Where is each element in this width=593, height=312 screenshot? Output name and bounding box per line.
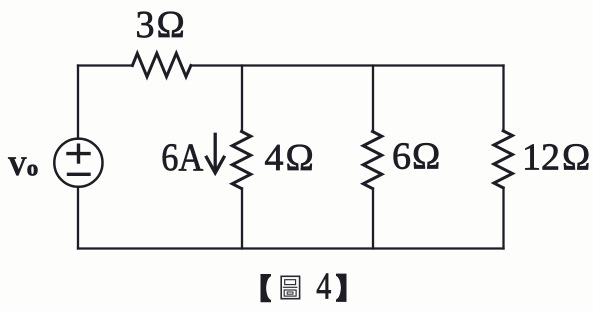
- svg-text:12Ω: 12Ω: [522, 136, 590, 178]
- wire left vertical upper: [77, 66, 79, 139]
- voltage source minus sign: [69, 173, 90, 176]
- svg-text:3Ω: 3Ω: [136, 4, 185, 46]
- resistor R4 12ohm zigzag: [494, 131, 513, 188]
- svg-text:6A: 6A: [161, 135, 203, 179]
- wire right vertical upper: [502, 66, 504, 131]
- caption glyph TU (figure): [281, 276, 299, 298]
- wire right vertical lower: [502, 188, 504, 249]
- svg-text:Vo: Vo: [8, 152, 38, 181]
- wire top-left segment: [78, 64, 132, 66]
- caption right lenticular bracket: [336, 274, 347, 302]
- caption left lenticular bracket: [261, 274, 272, 302]
- wire branch1 lower: [241, 189, 243, 249]
- wire branch2 lower: [372, 189, 374, 249]
- svg-text:6Ω: 6Ω: [392, 136, 440, 178]
- resistor R3 6ohm zigzag: [363, 132, 382, 189]
- svg-text:4: 4: [316, 266, 331, 308]
- wire branch1 upper: [241, 66, 243, 132]
- wire branch2 upper: [372, 66, 374, 132]
- voltage source plus sign: [68, 145, 89, 162]
- wire top-right segment: [191, 64, 504, 66]
- wire bottom: [78, 247, 504, 249]
- wire left vertical lower: [77, 187, 79, 249]
- voltage source VS circle: [54, 139, 102, 187]
- resistor R1 3ohm zigzag: [132, 53, 191, 76]
- current arrow 6A down: [207, 134, 224, 173]
- resistor R2 4ohm zigzag: [232, 132, 251, 189]
- svg-text:4Ω: 4Ω: [265, 137, 314, 179]
